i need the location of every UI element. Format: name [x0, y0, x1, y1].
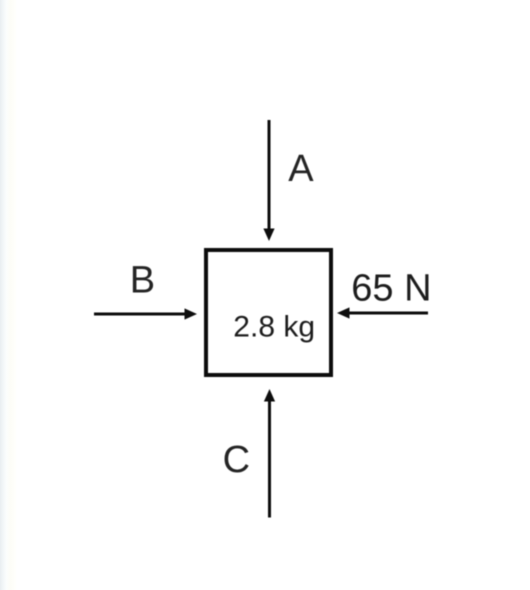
svg-text:2.8 kg: 2.8 kg [233, 310, 315, 343]
svg-text:A: A [288, 148, 314, 190]
force arrow A (downward) [263, 120, 274, 241]
force arrow C (upward) [264, 389, 275, 518]
force arrow B (rightward) [94, 308, 197, 319]
box (2.8 kg mass) [206, 250, 331, 375]
force arrow 65 N (leftward) [337, 307, 428, 318]
svg-text:C: C [223, 439, 250, 481]
svg-text:65 N: 65 N [351, 267, 431, 309]
svg-text:B: B [130, 259, 155, 301]
